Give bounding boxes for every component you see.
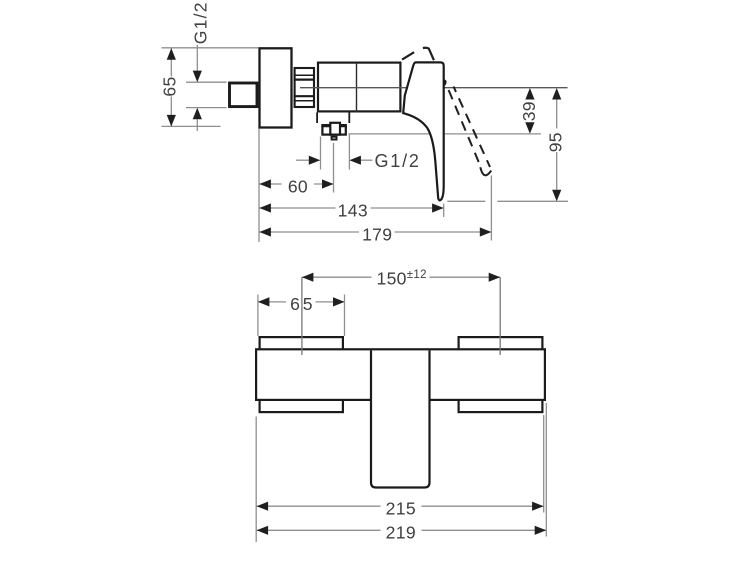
svg-text:219: 219 bbox=[386, 523, 416, 543]
svg-text:60: 60 bbox=[288, 176, 308, 196]
svg-text:5: 5 bbox=[303, 294, 313, 314]
svg-text:G1/2: G1/2 bbox=[191, 1, 211, 44]
svg-text:179: 179 bbox=[362, 224, 392, 244]
svg-text:G1/2: G1/2 bbox=[375, 151, 421, 171]
svg-text:215: 215 bbox=[386, 499, 416, 519]
svg-text:6: 6 bbox=[290, 294, 300, 314]
svg-text:39: 39 bbox=[519, 101, 539, 121]
svg-text:65: 65 bbox=[160, 76, 180, 96]
svg-text:95: 95 bbox=[545, 132, 565, 152]
svg-text:143: 143 bbox=[338, 200, 368, 220]
